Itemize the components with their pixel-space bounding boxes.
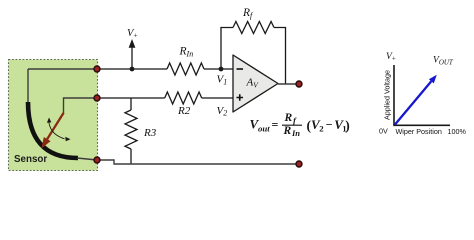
wire: output: [278, 83, 296, 85]
terminal: output: [296, 81, 302, 87]
svg-text:R3: R3: [143, 127, 157, 139]
wire: wiper lead: [64, 98, 98, 114]
resistor RIn: [167, 63, 204, 75]
svg-text:): ): [345, 118, 350, 133]
resistor Rf: [233, 22, 274, 34]
svg-text:Applied Voltage: Applied Voltage: [383, 70, 392, 120]
svg-text:−: −: [326, 118, 333, 132]
svg-text:100%: 100%: [448, 127, 467, 136]
svg-text:0V: 0V: [379, 127, 388, 136]
svg-text:R: R: [284, 112, 293, 124]
svg-text:2: 2: [319, 124, 324, 134]
graph: VOUT transfer line (blue arrow): [395, 75, 437, 125]
wiper arrow: [42, 113, 64, 148]
svg-text:V1: V1: [217, 74, 228, 87]
sensor box (green dashed enclosure): [9, 60, 98, 171]
wire: V1 net (sensor to op-amp inverting input): [28, 68, 233, 70]
svg-text:V+: V+: [127, 28, 138, 40]
svg-text:Wiper Position: Wiper Position: [396, 127, 442, 136]
terminal: sensor bottom: [94, 157, 100, 163]
svg-text:V2: V2: [217, 105, 228, 118]
equation Vout = Rf/RIn (V2 - V1): [250, 112, 350, 138]
svg-text:Rf: Rf: [242, 7, 254, 20]
potentiometer track (thick arc): [28, 102, 78, 158]
wire: track end to terminal: [77, 158, 97, 160]
svg-text:=: =: [272, 117, 279, 131]
resistor R2: [165, 92, 202, 104]
svg-text:out: out: [258, 124, 270, 134]
svg-text:R2: R2: [177, 105, 191, 117]
svg-text:In: In: [291, 128, 300, 138]
junction on V+ tap: [130, 67, 135, 72]
feedback loop wire: [221, 28, 286, 85]
resistor R3: [125, 98, 137, 165]
svg-text:R: R: [283, 125, 292, 137]
wire: bottom return net: [97, 160, 299, 164]
svg-text:V+: V+: [386, 52, 396, 63]
rotation indicator arrows: [47, 118, 71, 142]
svg-text:RIn: RIn: [179, 46, 194, 59]
wire: V2 net (sensor wiper to op-amp non-inverting input): [97, 97, 233, 99]
svg-text:VOUT: VOUT: [433, 56, 454, 67]
node V1: [219, 67, 224, 72]
graph: axes: [394, 65, 450, 125]
svg-text:f: f: [293, 115, 297, 125]
op-amp plus sign: [237, 94, 244, 101]
V+ supply arrow: [129, 39, 136, 69]
wire: sensor top lead: [27, 69, 29, 103]
op-amp minus sign: [237, 68, 244, 70]
terminal: sensor wiper: [94, 95, 100, 101]
terminal: sensor top: [94, 66, 100, 72]
terminal: return: [296, 161, 302, 167]
op-amp U1: [233, 55, 278, 112]
svg-text:Sensor: Sensor: [14, 154, 47, 165]
